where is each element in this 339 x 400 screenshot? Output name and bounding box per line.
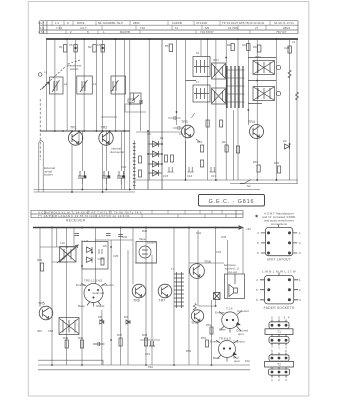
output transformer T2 box [59,318,79,335]
svg-text:T.1: T.1 [171,267,175,271]
svg-text:C6: C6 [97,43,101,47]
resistor R12 [225,145,228,152]
IFT3 trimmer [276,65,280,69]
T2 pin numbers top [271,349,287,353]
svg-text:RA/47B: RA/47B [120,30,130,34]
svg-text:R15: R15 [253,160,259,164]
svg-text:L2: L2 [64,82,68,86]
external aerial twin line [39,141,43,192]
coil L2 tuned circuit box [77,76,93,94]
svg-text:R48: R48 [142,333,148,337]
IFT4 trimmer [276,91,280,95]
capacitor C20 [93,342,105,346]
transistor TR4 [250,125,264,139]
wire V17 [225,39,227,180]
resistor R18 [236,146,239,153]
resistor R21 [65,340,68,348]
IFT3 winding cross [254,61,275,74]
variable capacitor C1 [52,80,60,92]
basing diagram circle TR6 [222,312,239,329]
oscillator coil cross [60,248,76,262]
mid-left detail components [40,39,289,190]
capacitor C22 [167,167,173,172]
resistor R6 [231,44,234,51]
svg-text:Collector: Collector [233,340,245,344]
wire V19 [237,39,239,180]
wire V2 [54,39,56,131]
svg-text:Base: Base [78,304,85,308]
unit layout top tick [278,225,280,228]
svg-text:R52: R52 [201,336,207,340]
svg-text:15A: 15A [245,359,250,363]
resistor R2 [74,45,77,53]
diode D5 [285,144,290,149]
capacitor C44 [106,234,111,236]
coil L1 tuned circuit box [50,77,64,94]
svg-text:R20: R20 [274,161,280,165]
IF transformer IFT3 box [253,61,275,75]
svg-text:L11: L11 [84,239,89,243]
capacitor C40 [118,235,123,237]
svg-text:TR6: TR6 [133,299,140,303]
diode D6 [87,247,93,252]
transistor TR9 [191,310,203,322]
top bus [46,38,298,40]
wire V11 [148,39,150,180]
waveband switch dashed link [40,60,80,90]
fader top tick [278,273,280,276]
svg-text:Base: Base [213,356,220,360]
svg-text:L4: L4 [292,40,296,44]
resistor R3 [93,45,96,53]
wire W21 [242,228,244,275]
G.E.C. - G816 label box [199,195,265,207]
resistor R22 [80,340,83,348]
svg-text:Emitter: Emitter [215,311,225,315]
svg-text:TR2: TR2 [101,126,108,130]
svg-text:switch: switch [70,67,79,71]
IF transformer IFT2 box lower [212,88,226,104]
svg-text:C40: C40 [122,235,128,239]
transistor TR5 [39,306,53,320]
wire W13 [151,255,153,365]
resistor R20 [41,263,44,271]
svg-text:dust aerial: dust aerial [110,150,124,154]
wire W10 [127,250,129,365]
svg-text:RECEIVER: RECEIVER [66,219,86,223]
diode D3 [153,161,159,167]
IF transformer L4 windings [194,60,209,73]
diode D1 [153,141,159,147]
svg-text:C18: C18 [242,43,248,47]
detector box [82,242,108,270]
svg-text:11/45/B: 11/45/B [172,21,182,25]
svg-text:R10: R10 [197,140,203,144]
coil bank winding 5 [242,66,244,108]
svg-text:L6: L6 [196,51,200,55]
svg-text:D8: D8 [98,315,102,319]
svg-text:socket: socket [44,173,53,177]
wire V22 [275,39,277,180]
resistor R27 [165,155,168,162]
svg-text:C1-7: C1-7 [38,21,45,25]
svg-text:D9: D9 [124,315,128,319]
diode D4 [153,170,159,176]
wire W7 [101,310,103,365]
resistor squiggle right 2 [295,92,298,100]
svg-text:L7: L7 [196,80,200,84]
variable capacitor C3 [111,80,119,92]
unit layout connector box [265,227,292,255]
coil bank winding 4 [238,66,240,108]
TR3 emitter resistor wire [186,139,201,180]
svg-text:C15: C15 [163,174,169,178]
wire W1 [39,228,41,308]
svg-text:T10: T10 [140,26,145,30]
svg-text:C16: C16 [187,174,193,178]
AGC capacitor C13 [168,116,181,120]
oscillator padder box [130,93,141,104]
svg-text:L.7.1: L.7.1 [38,30,45,34]
IFT1 winding cross [212,64,225,78]
bottom rail 1 [38,360,103,365]
svg-text:Shield: Shield [96,304,105,308]
svg-text:T2: T2 [277,362,281,366]
diode D9 [126,320,130,324]
IF transformer IFT4 box [253,87,275,101]
top table row 3 text [38,30,287,34]
IFT2 winding cross [212,89,225,103]
wire W4 [73,228,75,251]
svg-text:R5: R5 [165,44,169,48]
resistor R17 [206,120,209,127]
capacitor feed wires [82,131,121,190]
wire W2 [51,228,53,366]
svg-text:C9: C9 [179,132,183,136]
svg-text:L3: L3 [93,82,97,86]
resistor R23 [119,338,122,346]
IF transformer L4 box [193,57,210,77]
svg-text:C5: C5 [69,43,73,47]
svg-text:Emitter: Emitter [210,340,220,344]
wire V23 [289,39,291,180]
T2 pins [271,357,288,374]
svg-text:R47: R47 [117,333,123,337]
earpiece socket box [225,274,245,299]
wire V16 [215,39,217,180]
TR3 base feed wires [125,104,146,131]
svg-text:T.1.6: T.1.6 [226,307,233,311]
resistor R19 [128,99,135,102]
tape socket symbol [139,246,151,258]
capacitor polarity dot C10 [84,175,87,178]
svg-text:R46: R46 [78,336,84,340]
ferrite rod aerial [133,141,136,190]
wire W14 [173,228,175,366]
svg-text:R40: R40 [142,229,148,233]
resistor R11 [201,160,204,167]
svg-text:71/17/8.57: 71/17/8.57 [200,30,214,34]
svg-text:TR7: TR7 [159,299,166,303]
svg-text:Base: Base [219,328,226,332]
svg-text:R8: R8 [227,43,231,47]
resistor R25 [210,327,213,334]
svg-text:R45: R45 [63,336,69,340]
top table row 2 text [40,26,291,30]
wire V5 [83,39,85,131]
fader pin numbers [256,278,301,302]
driver transformer T1 windings [174,272,179,308]
scattered component reference labels bottom [37,227,251,369]
svg-text:27: 27 [255,26,259,30]
resistor R4 [101,45,104,53]
transistor TR1 [68,131,82,145]
wire W18 [56,228,58,248]
basing diagram circle TR8 TR9 [219,341,236,358]
speaker LS1 [229,274,238,297]
coil bank winding 2 [230,66,232,108]
svg-text:R30: R30 [37,258,43,262]
wire V18 [233,110,235,180]
wire V9 [124,39,126,190]
IF transformer L5 box [193,85,210,102]
wire W12 [145,228,147,366]
svg-text:TR5.1,2,3,4,5: TR5.1,2,3,4,5 [84,279,103,283]
svg-text:C25: C25 [113,254,119,258]
svg-text:TR3: TR3 [181,120,188,124]
svg-text:IFT1: IFT1 [213,58,219,62]
TR2 top link wire [101,116,117,118]
wire V3 [66,39,68,131]
capacitor C10 [78,171,87,184]
junction dots top section [54,38,291,193]
capacitor C24 [173,126,184,130]
svg-text:UNIT LAYOUT: UNIT LAYOUT [267,258,291,262]
wire V12 [176,39,178,125]
capacitor C23 [187,167,193,172]
wire W8 [110,240,112,365]
wire V4 [75,39,77,131]
transistor TR3 [136,113,195,138]
oscillator coil box [60,247,77,263]
diode D7 [87,257,93,262]
svg-text:RATE: RATE [77,21,85,25]
resistor R26 [206,340,209,347]
scattered component reference labels top [44,40,296,188]
capacitor polarity dot C11 [108,175,111,178]
svg-text:S: S [67,21,69,25]
capacitor C43 [75,234,80,236]
svg-text:IFT2: IFT2 [255,55,261,59]
resistor R10 [201,145,204,152]
resistor R16 [220,120,223,127]
capacitor C11 [102,171,111,184]
svg-text:D2: D2 [283,139,287,143]
wire W3 [66,228,68,366]
svg-text:4T.14/30: 4T.14/30 [196,21,207,25]
svg-text:R2: R2 [88,45,92,49]
wire V1 [45,39,47,131]
wire V13 [185,39,187,180]
svg-text:TY 28/P DR LAGAN: TY 28/P DR LAGAN F.13.55 61/41/0 4/47/19… [38,214,130,218]
transistor TR2 [99,131,113,145]
svg-text:R51: R51 [206,323,212,327]
coil bank cross ties [226,70,245,102]
capacitor C7 [140,100,142,104]
wire W19 [215,228,217,307]
wire W15 [188,228,190,366]
detector junction dot [91,252,93,254]
svg-text:TR8: TR8 [204,260,211,264]
svg-text:L10: L10 [60,241,65,245]
wire W11 [132,228,134,285]
IFT4 winding cross [254,87,275,100]
svg-text:460: 460 [37,329,42,333]
BOTTOM SCHEMATIC [33,226,250,370]
wire V7 [102,39,104,131]
svg-text:28/M: 28/M [133,21,140,25]
svg-text:21.70/6: 21.70/6 [228,26,238,30]
wire V25 AGC rail [161,39,163,190]
svg-text:TR.8 & 9: TR.8 & 9 [219,337,231,341]
wire V8 [115,39,117,131]
svg-text:FADER SOCKETS: FADER SOCKETS [264,306,295,310]
bottom rail 2 [38,364,250,366]
coil bank winding 3 [234,66,236,108]
svg-text:R1: R1 [59,45,63,49]
T2 pin numbers bottom [271,378,287,382]
svg-text:S1.46.71.17/14: S1.46.71.17/14 [274,21,294,25]
unit layout pins [267,231,291,301]
bus end arrow [238,226,243,230]
transformer T1 plan view [265,320,293,346]
svg-text:TR1: TR1 [70,126,77,130]
basing diagram leads [81,283,106,307]
IFT link wires [186,58,277,104]
basing diagram pin dots [88,289,90,291]
RIGHT COLUMN [260,225,298,304]
resistor R5 [169,44,172,52]
middle title table [31,210,243,217]
capacitor C19 [209,167,215,172]
svg-text:cut-out: cut-out [228,270,237,274]
wire V20 [247,39,249,125]
top table row 1 text [38,21,294,25]
resistor R7 [247,44,250,51]
resistor squiggle R50 [193,304,196,311]
capacitor C12 [117,171,126,184]
svg-text:Emitter: Emitter [76,283,86,287]
resistor R29 [139,156,142,163]
oscillator switch tick [191,113,195,118]
unit layout pin numbers [257,231,301,255]
svg-text:TP. 15,16/2T,18/5,78,29 10 40,: TP. 15,16/2T,18/5,78,29 10 40,41 [222,21,265,25]
right column note text [262,212,296,227]
resistor R8 [258,45,261,52]
fader socket connector box [265,276,294,304]
svg-text:R9: R9 [253,45,257,49]
svg-text:spot: spot [234,359,240,363]
tuning arrow [57,245,78,263]
junction dots bottom section [51,227,217,366]
aerial terminal [38,73,42,77]
bottom buses [34,189,261,191]
tape socket box [136,242,157,264]
svg-text:4 6,7: 4 6,7 [80,26,87,30]
wire W9 [120,228,122,366]
resistor R1 [64,45,67,53]
svg-text:11: 11 [175,26,178,30]
T1 pin numbers top [271,316,290,320]
T1 pin numbers bottom [271,345,287,349]
svg-text:75/7.6/7: 75/7.6/7 [276,30,287,34]
capacitor C21 [149,341,155,346]
diode D8 [100,320,104,324]
svg-text:Collector: Collector [237,309,249,313]
transistor TR7 [158,284,172,298]
svg-text:R50: R50 [186,349,192,353]
wire W16 [197,230,199,306]
svg-text:D6: D6 [103,244,107,248]
svg-text:C35: C35 [221,235,227,239]
wire W5 [81,240,83,365]
capacitor C26 [98,249,104,259]
svg-text:C17: C17 [211,174,217,178]
wire V10 [129,39,131,190]
resistor R33 [101,258,104,265]
bottom top bus [33,227,238,229]
resistor R24 [144,338,147,346]
svg-text:TR9: TR9 [191,321,198,325]
padder trimmer mark [132,94,139,102]
fader pins [267,278,270,281]
transistor TR6 [132,284,146,298]
svg-text:15A: 15A [148,365,153,369]
svg-text:C50: C50 [48,329,54,333]
resistor R13 [257,165,260,172]
TOP SCHEMATIC [34,39,299,192]
svg-text:TR4: TR4 [248,120,255,124]
svg-text:L1: L1 [44,70,48,74]
svg-text:TR5: TR5 [38,302,45,306]
top section components [38,44,298,109]
resistor R28 [171,155,174,162]
wire V24 [296,39,298,184]
resistor R31 [139,170,142,177]
TR3 base rail [136,131,182,133]
resistor R14 [278,166,281,173]
thermistor X box [214,293,221,300]
svg-text:T1: T1 [277,330,281,334]
wire V14 [200,39,202,56]
TR1 emitter drop wire [72,131,79,192]
svg-text:+9V: +9V [246,227,251,231]
variable capacitor C2 [80,80,88,92]
svg-text:C41: C41 [196,231,202,235]
svg-text:L.M.B L.M.W L.17.W: L.M.B L.M.W L.17.W [262,269,296,273]
svg-text:C28: C28 [284,46,290,50]
aerial arrow [42,82,49,89]
transistor TR8 [190,264,205,279]
svg-text:D1: D1 [160,136,164,140]
wire W20 [226,240,228,298]
wire W6 [95,228,97,285]
wire V15 [207,39,209,180]
wire W17 [198,300,212,365]
svg-text:Tape: Tape [139,237,146,241]
horizontal link wires [40,240,224,340]
output transformer cross [60,319,79,334]
